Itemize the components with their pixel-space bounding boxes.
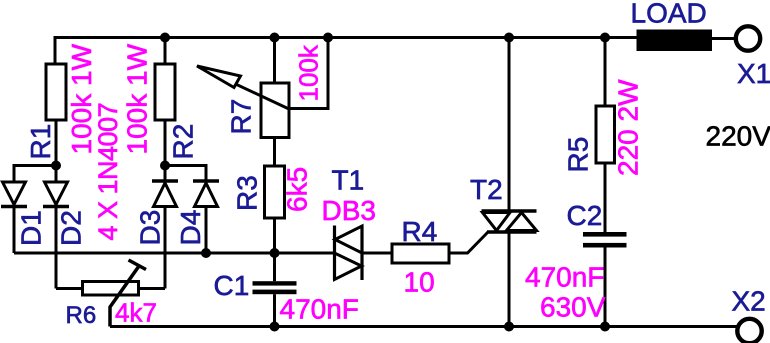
svg-text:D4: D4 — [175, 210, 206, 246]
R7 wiper arrow — [197, 66, 289, 109]
diode D4 — [193, 181, 219, 253]
svg-text:4 X 1N4007: 4 X 1N4007 — [93, 103, 123, 241]
svg-text:6k5: 6k5 — [282, 167, 313, 212]
svg-text:100k 1W: 100k 1W — [122, 43, 153, 154]
node junction R2/D3/D4 — [160, 161, 170, 171]
terminal X2 — [737, 319, 761, 343]
resistor R3 — [265, 166, 285, 253]
wire mid horizontal net — [14, 252, 335, 255]
svg-text:DB3: DB3 — [322, 195, 376, 226]
triac T2 — [482, 38, 537, 327]
svg-text:630V: 630V — [540, 292, 606, 323]
node junction C2 bottom rail — [600, 322, 610, 332]
svg-text:220V: 220V — [706, 121, 770, 152]
svg-text:470nF: 470nF — [525, 262, 604, 293]
svg-text:R7: R7 — [226, 99, 257, 135]
load block — [637, 30, 713, 52]
node junction R3/C1 — [270, 248, 280, 258]
svg-text:D2: D2 — [56, 210, 87, 246]
svg-text:R6: R6 — [66, 302, 97, 329]
node junction D4 — [201, 248, 211, 258]
wire diac to R4 — [362, 252, 392, 255]
wire to D4 — [165, 166, 206, 182]
resistor R2 — [155, 38, 175, 166]
svg-text:C2: C2 — [567, 200, 603, 231]
svg-text:R2: R2 — [168, 124, 199, 160]
R6 wiper arm — [110, 260, 146, 327]
potentiometer R6 — [56, 282, 165, 296]
diac T1 DB3 — [335, 226, 363, 281]
svg-text:D3: D3 — [135, 210, 166, 246]
svg-text:X1: X1 — [737, 58, 770, 89]
svg-text:D1: D1 — [16, 210, 47, 246]
terminal X1 — [736, 26, 760, 50]
wire top rail — [55, 38, 637, 65]
svg-text:T2: T2 — [470, 174, 503, 205]
node junction C1 bottom rail — [270, 322, 280, 332]
capacitor C2 — [583, 232, 627, 327]
svg-text:R3: R3 — [232, 175, 263, 211]
svg-text:T1: T1 — [332, 164, 365, 195]
wire load to X1 — [712, 37, 735, 40]
capacitor C1 — [253, 253, 297, 327]
wire to D1 — [14, 166, 56, 183]
diode D1 — [1, 182, 27, 253]
svg-text:R5: R5 — [563, 137, 594, 173]
svg-text:100k: 100k — [294, 44, 324, 101]
node junction top rail R5 — [600, 33, 610, 43]
node junction top rail tap — [323, 33, 333, 43]
node junction top rail R7 — [270, 33, 280, 43]
wire R7 tap to top rail — [289, 38, 328, 109]
resistor R4 — [392, 232, 488, 263]
svg-text:LOAD: LOAD — [631, 0, 707, 29]
diode D3 — [152, 166, 178, 289]
svg-text:X2: X2 — [732, 286, 766, 317]
svg-text:C1: C1 — [214, 270, 250, 301]
svg-text:R1: R1 — [25, 124, 56, 160]
svg-text:10: 10 — [404, 267, 435, 298]
svg-text:4k7: 4k7 — [115, 298, 157, 328]
svg-text:470nF: 470nF — [280, 294, 359, 325]
node junction top rail R2 — [160, 33, 170, 43]
diode D2 — [43, 166, 69, 289]
resistor R5 — [596, 38, 615, 233]
node junction top rail T2 — [504, 33, 514, 43]
node junction T2 bottom rail — [504, 322, 514, 332]
wire bottom rail — [110, 325, 737, 328]
svg-text:220 2W: 220 2W — [613, 79, 644, 176]
potentiometer R7 — [261, 38, 289, 167]
node junction R1/D1/D2 — [51, 161, 61, 171]
resistor R1 — [46, 64, 66, 166]
svg-text:R4: R4 — [402, 216, 438, 247]
